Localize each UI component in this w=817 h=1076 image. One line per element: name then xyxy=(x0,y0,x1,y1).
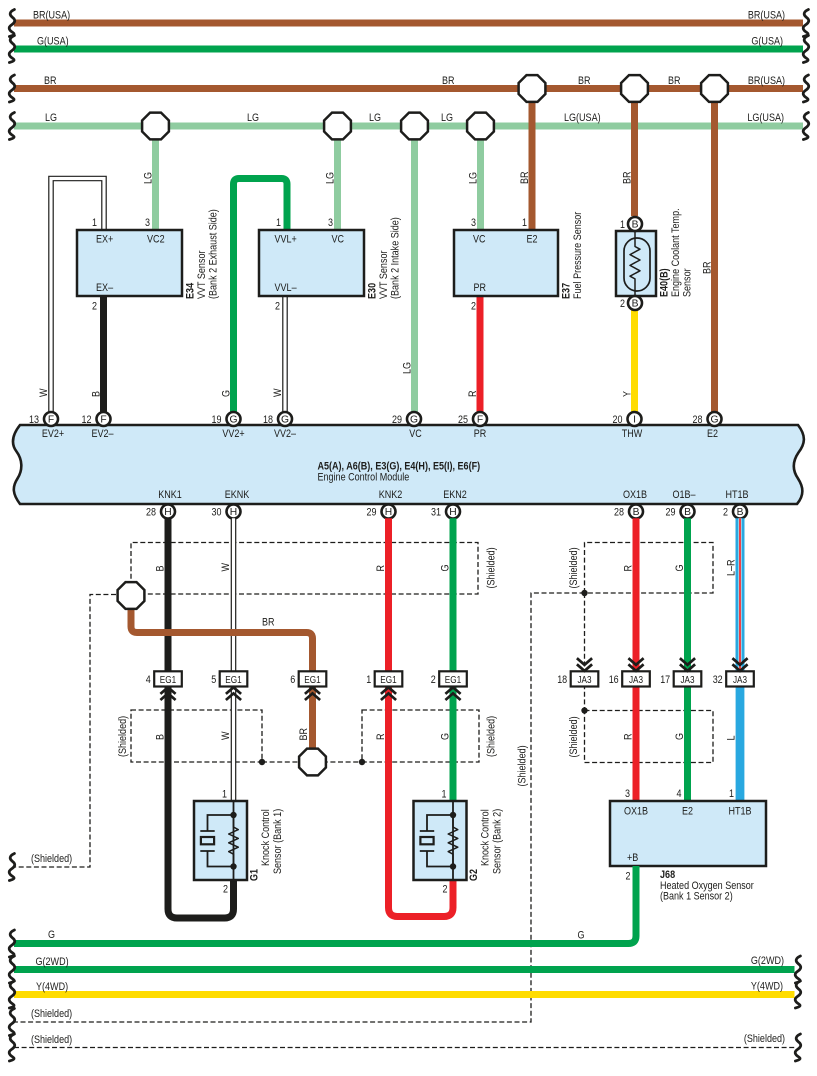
ECM pin 20 THW xyxy=(613,412,643,440)
svg-text:(Shielded): (Shielded) xyxy=(31,1008,72,1020)
connector EG1 pin 6 xyxy=(290,671,326,700)
sensor G2 Knock Control Sensor (Bank 2) xyxy=(414,789,504,896)
svg-text:1: 1 xyxy=(222,789,227,801)
svg-text:4: 4 xyxy=(146,674,151,686)
svg-text:BR: BR xyxy=(44,75,57,87)
svg-text:(Shielded): (Shielded) xyxy=(486,547,498,588)
svg-text:28: 28 xyxy=(146,506,156,518)
svg-text:VC2: VC2 xyxy=(147,234,165,246)
svg-text:BR: BR xyxy=(442,75,455,87)
svg-text:VVL–: VVL– xyxy=(275,282,298,294)
svg-text:H: H xyxy=(385,507,392,518)
svg-text:JA3: JA3 xyxy=(680,675,694,686)
wire BR shield drain from EG1 pin 6 to splice octagon xyxy=(298,686,313,751)
svg-text:EG1: EG1 xyxy=(445,675,462,686)
wire Y(4WD) bus xyxy=(9,981,801,1009)
svg-text:BR: BR xyxy=(578,75,591,87)
ECM pin 2 HT1B xyxy=(723,489,749,519)
shield tail dashed to left edge with (Shielded) label xyxy=(9,595,116,881)
wire BR shield drain from splice to EG1 pin 6 xyxy=(131,607,313,673)
shield dashed box KNK1/EKNK/KNK2/EKN2 upper xyxy=(131,543,498,595)
svg-text:BR(USA): BR(USA) xyxy=(748,75,785,87)
svg-text:Engine Coolant Temp.: Engine Coolant Temp. xyxy=(670,208,682,297)
svg-text:W: W xyxy=(38,388,50,397)
svg-text:L: L xyxy=(726,736,738,741)
svg-text:2: 2 xyxy=(92,301,97,313)
svg-text:2: 2 xyxy=(471,301,476,313)
wire W from E34 EX+ to ECM pin 13 xyxy=(38,179,104,413)
svg-text:R: R xyxy=(375,565,387,572)
svg-text:Sensor: Sensor xyxy=(682,268,694,297)
ECM pin 29 O1B– xyxy=(666,489,697,519)
svg-text:(Shielded): (Shielded) xyxy=(517,745,529,786)
svg-text:G2: G2 xyxy=(468,869,480,881)
svg-text:G: G xyxy=(674,565,686,572)
ECM pin 18 VV2– xyxy=(263,412,297,440)
wire L from JA3 32 to J68 pin 1 xyxy=(726,686,741,802)
svg-text:R: R xyxy=(467,390,479,397)
splice octagon LG-E30 xyxy=(324,113,351,140)
splice octagon shield lower xyxy=(299,749,326,776)
svg-text:E2: E2 xyxy=(707,428,718,440)
wire R KNK2 from ECM pin 29 to G2 pin 2 xyxy=(375,518,453,916)
svg-text:28: 28 xyxy=(614,506,624,518)
svg-text:JA3: JA3 xyxy=(577,675,591,686)
svg-text:LG: LG xyxy=(247,112,259,124)
svg-text:(Shielded): (Shielded) xyxy=(31,853,72,865)
wire G EKN2 from ECM pin 31 to G2 pin 1 xyxy=(440,518,454,801)
svg-text:EKN2: EKN2 xyxy=(443,489,467,501)
svg-text:29: 29 xyxy=(392,414,402,426)
svg-text:EG1: EG1 xyxy=(380,675,397,686)
svg-text:2: 2 xyxy=(620,298,625,310)
svg-text:(Bank 2 Intake Side): (Bank 2 Intake Side) xyxy=(390,217,402,299)
svg-text:G: G xyxy=(440,733,452,740)
splice octagon BR-E40 xyxy=(621,75,648,102)
svg-text:W: W xyxy=(220,731,232,740)
splice octagon shield left xyxy=(118,582,145,609)
wire LG drop to E37 VC xyxy=(468,133,481,230)
svg-text:Knock Control: Knock Control xyxy=(260,809,272,866)
wire W from E30 VVL- to ECM pin 18 xyxy=(272,296,285,412)
svg-text:F: F xyxy=(48,415,54,426)
svg-text:2: 2 xyxy=(626,871,631,883)
svg-text:18: 18 xyxy=(557,674,567,686)
svg-text:R: R xyxy=(375,733,387,740)
svg-text:R: R xyxy=(623,565,635,572)
connector JA3 pin 18 xyxy=(557,658,598,686)
svg-text:19: 19 xyxy=(212,414,222,426)
svg-text:EX+: EX+ xyxy=(96,234,113,246)
svg-text:Engine Control Module: Engine Control Module xyxy=(318,472,410,484)
svg-text:1: 1 xyxy=(522,217,527,229)
svg-text:G: G xyxy=(221,390,233,397)
svg-text:B: B xyxy=(155,734,167,740)
svg-text:JA3: JA3 xyxy=(629,675,643,686)
svg-text:(Shielded): (Shielded) xyxy=(568,547,580,588)
svg-text:LG: LG xyxy=(45,112,57,124)
ECM pin 28 OX1B xyxy=(614,489,647,519)
ECM pin 30 EKNK xyxy=(212,489,250,519)
svg-text:20: 20 xyxy=(613,414,623,426)
svg-text:G: G xyxy=(674,733,686,740)
svg-text:BR: BR xyxy=(668,75,681,87)
svg-text:3: 3 xyxy=(471,217,476,229)
wire LG drop to E34 VC2 xyxy=(143,133,156,230)
wire BR drop to E40(B) pin 1 xyxy=(622,95,635,216)
ECM pin 19 VV2+ xyxy=(212,412,245,440)
svg-text:2: 2 xyxy=(275,301,280,313)
connector EG1 pin 5 xyxy=(211,671,247,700)
svg-text:1: 1 xyxy=(620,219,625,231)
svg-text:G: G xyxy=(229,415,237,426)
wire BR bus xyxy=(9,75,809,102)
svg-text:VV2+: VV2+ xyxy=(222,428,244,440)
svg-text:B: B xyxy=(632,220,639,231)
svg-text:EG1: EG1 xyxy=(225,675,242,686)
svg-text:(Shielded): (Shielded) xyxy=(117,716,129,757)
svg-text:LG: LG xyxy=(369,112,381,124)
svg-text:E2: E2 xyxy=(527,234,538,246)
sensor E40(B) Engine Coolant Temp. Sensor xyxy=(616,208,694,310)
wire Y from E40(B) pin 2 to ECM pin 20 THW xyxy=(622,310,635,412)
svg-text:EG1: EG1 xyxy=(160,675,177,686)
svg-text:1: 1 xyxy=(92,217,97,229)
sensor E34 VVT Sensor (Bank 2 Exhaust Side) xyxy=(77,209,220,312)
svg-text:B: B xyxy=(91,391,103,397)
svg-text:H: H xyxy=(449,507,456,518)
svg-text:HT1B: HT1B xyxy=(725,489,748,501)
ECM pin 25 PR xyxy=(458,412,487,440)
svg-text:(Shielded): (Shielded) xyxy=(568,716,580,757)
svg-text:THW: THW xyxy=(622,428,643,440)
svg-text:H: H xyxy=(230,507,237,518)
svg-text:G: G xyxy=(410,415,418,426)
splice octagon LG-E34 xyxy=(142,113,169,140)
svg-text:OX1B: OX1B xyxy=(623,489,647,501)
svg-text:E2: E2 xyxy=(682,806,693,818)
ECM pin 13 EV2+ xyxy=(29,412,64,440)
svg-text:EV2–: EV2– xyxy=(91,428,114,440)
svg-text:LG: LG xyxy=(143,172,155,184)
wire B KNK1 from ECM pin 28 to G1 pin 2 xyxy=(155,518,234,918)
wire LG bus xyxy=(9,112,809,140)
svg-text:O1B–: O1B– xyxy=(672,489,696,501)
svg-text:Y(4WD): Y(4WD) xyxy=(751,981,783,993)
svg-text:2: 2 xyxy=(723,506,728,518)
ECM pin 31 EKN2 xyxy=(431,489,467,519)
svg-text:LG(USA): LG(USA) xyxy=(747,112,784,124)
svg-text:Fuel Pressure Sensor: Fuel Pressure Sensor xyxy=(572,211,584,299)
splice octagon LG-E37 xyxy=(467,113,494,140)
svg-text:VVT Sensor: VVT Sensor xyxy=(378,250,390,299)
svg-text:VC: VC xyxy=(473,234,486,246)
svg-text:BR: BR xyxy=(298,728,310,741)
sensor G1 Knock Control Sensor (Bank 1) xyxy=(194,789,284,896)
svg-text:(Shielded): (Shielded) xyxy=(744,1033,785,1045)
svg-text:25: 25 xyxy=(458,414,468,426)
shield tail dashed to bottom left edge with (Shielded) label xyxy=(9,593,584,1036)
svg-text:1: 1 xyxy=(276,217,281,229)
svg-text:G(USA): G(USA) xyxy=(751,36,783,48)
svg-text:13: 13 xyxy=(29,414,39,426)
svg-text:EKNK: EKNK xyxy=(225,489,250,501)
wire BR drop to E37 E2 xyxy=(519,95,532,230)
svg-text:B: B xyxy=(632,299,639,310)
svg-text:F: F xyxy=(477,415,483,426)
ECM pin 29 KNK2 xyxy=(367,489,403,519)
svg-text:HT1B: HT1B xyxy=(728,806,751,818)
svg-text:18: 18 xyxy=(263,414,273,426)
wire BR(USA) bus top xyxy=(9,10,809,37)
svg-text:12: 12 xyxy=(82,414,92,426)
wire G bus from J68 +B to left edge xyxy=(9,866,636,957)
module ECM Engine Control Module band xyxy=(13,425,804,504)
svg-text:L–R: L–R xyxy=(726,559,738,576)
svg-text:G(USA): G(USA) xyxy=(37,36,69,48)
svg-text:VC: VC xyxy=(409,428,422,440)
svg-text:EX–: EX– xyxy=(96,282,114,294)
svg-text:BR: BR xyxy=(622,171,634,184)
svg-text:VVL+: VVL+ xyxy=(275,234,297,246)
splice octagon BR-E37 xyxy=(519,75,546,102)
svg-text:G: G xyxy=(281,415,289,426)
connector EG1 pin 1 xyxy=(366,671,402,700)
svg-text:EG1: EG1 xyxy=(304,675,321,686)
wire R OX1B from ECM pin 28 to J68 pin 3 xyxy=(623,518,637,801)
shield dashed box R/G lower-middle xyxy=(362,710,498,762)
svg-text:16: 16 xyxy=(609,674,619,686)
shield dashed box OX1B/O1B- upper xyxy=(568,543,713,594)
svg-text:2: 2 xyxy=(431,674,436,686)
svg-text:G(2WD): G(2WD) xyxy=(751,955,784,967)
connector JA3 pin 16 xyxy=(609,658,650,686)
svg-text:1: 1 xyxy=(729,788,734,800)
ECM pin 29 VC xyxy=(392,412,422,440)
svg-text:31: 31 xyxy=(431,506,441,518)
wire LG drop to E30 VC xyxy=(325,133,338,230)
svg-text:LG: LG xyxy=(468,172,480,184)
wire G(USA) bus xyxy=(9,36,809,63)
svg-text:29: 29 xyxy=(666,506,676,518)
svg-text:1: 1 xyxy=(442,789,447,801)
svg-text:29: 29 xyxy=(367,506,377,518)
svg-text:E30: E30 xyxy=(367,283,379,299)
svg-text:E40(B): E40(B) xyxy=(659,268,671,297)
svg-text:Y(4WD): Y(4WD) xyxy=(36,981,68,993)
svg-text:JA3: JA3 xyxy=(733,675,747,686)
svg-text:E34: E34 xyxy=(185,282,197,299)
connector EG1 pin 2 xyxy=(431,671,467,700)
shield dashed box B/W lower-left xyxy=(117,710,262,762)
svg-text:+B: +B xyxy=(627,852,638,864)
svg-text:3: 3 xyxy=(328,217,333,229)
connector JA3 pin 32 xyxy=(713,658,754,686)
svg-text:(Shielded): (Shielded) xyxy=(31,1034,72,1046)
connector JA3 pin 17 xyxy=(660,658,701,686)
svg-text:BR: BR xyxy=(262,617,275,629)
wire W EKNK from ECM pin 30 to G1 pin 1 xyxy=(220,518,234,801)
svg-text:17: 17 xyxy=(660,674,670,686)
svg-text:PR: PR xyxy=(474,428,487,440)
svg-text:F: F xyxy=(100,415,106,426)
svg-text:BR: BR xyxy=(702,261,714,274)
shield dashed box OX1B/O1B- lower xyxy=(568,711,713,763)
wire (Shielded) dashed bus bottom xyxy=(9,1033,801,1061)
svg-text:W: W xyxy=(220,563,232,572)
svg-text:VV2–: VV2– xyxy=(274,428,297,440)
svg-text:VC: VC xyxy=(332,234,345,246)
wire R from E37 PR to ECM pin 25 xyxy=(467,296,480,412)
svg-text:G(2WD): G(2WD) xyxy=(36,956,69,968)
svg-text:B: B xyxy=(684,507,691,518)
svg-text:B: B xyxy=(737,507,744,518)
splice octagon BR-ECM xyxy=(701,75,728,102)
svg-text:Sensor (Bank 2): Sensor (Bank 2) xyxy=(492,809,504,874)
svg-text:EV2+: EV2+ xyxy=(42,428,64,440)
svg-text:BR(USA): BR(USA) xyxy=(748,10,785,22)
svg-text:PR: PR xyxy=(474,282,487,294)
svg-text:(Bank 2 Exhaust Side): (Bank 2 Exhaust Side) xyxy=(208,209,220,299)
wire G O1B- from ECM pin 29 to J68 pin 4 xyxy=(674,518,688,801)
svg-text:28: 28 xyxy=(693,414,703,426)
wire L-R HT1B from ECM pin 2 to JA3 32 xyxy=(726,518,741,672)
ECM pin 28 E2 xyxy=(693,412,722,440)
svg-text:3: 3 xyxy=(625,788,630,800)
svg-text:B: B xyxy=(633,507,640,518)
svg-text:G1: G1 xyxy=(249,869,261,881)
svg-text:BR: BR xyxy=(519,171,531,184)
svg-text:Knock Control: Knock Control xyxy=(480,809,492,866)
shield dashed link through splice octagon xyxy=(262,761,362,763)
svg-text:BR(USA): BR(USA) xyxy=(33,10,70,22)
svg-text:(Bank 1 Sensor 2): (Bank 1 Sensor 2) xyxy=(660,891,733,903)
ECM pin 12 EV2– xyxy=(82,412,115,440)
svg-text:KNK2: KNK2 xyxy=(379,489,403,501)
svg-text:VVT Sensor: VVT Sensor xyxy=(196,250,208,299)
svg-text:LG: LG xyxy=(402,362,414,374)
svg-text:OX1B: OX1B xyxy=(624,806,648,818)
svg-text:2: 2 xyxy=(443,884,448,896)
ECM pin 28 KNK1 xyxy=(146,489,182,519)
svg-text:4: 4 xyxy=(677,788,682,800)
svg-text:R: R xyxy=(623,733,635,740)
sensor E30 VVT Sensor (Bank 2 Intake Side) xyxy=(259,217,402,313)
svg-text:W: W xyxy=(272,388,284,397)
svg-text:2: 2 xyxy=(223,884,228,896)
svg-text:32: 32 xyxy=(713,674,723,686)
svg-text:B: B xyxy=(155,566,167,572)
svg-text:G: G xyxy=(440,565,452,572)
svg-text:LG: LG xyxy=(325,172,337,184)
shield dashed vertical through JA3 18 xyxy=(584,593,586,711)
sensor E37 Fuel Pressure Sensor xyxy=(454,211,584,312)
wire B from E34 EX- to ECM pin 12 xyxy=(91,296,104,412)
svg-text:LG: LG xyxy=(441,112,453,124)
wire BR drop to ECM pin 28 E2 xyxy=(702,95,715,412)
svg-text:KNK1: KNK1 xyxy=(158,489,182,501)
svg-text:Y: Y xyxy=(622,390,634,397)
svg-text:3: 3 xyxy=(145,217,150,229)
wire G from E30 VVL+ to ECM pin 19 xyxy=(221,179,288,413)
svg-text:G: G xyxy=(710,415,718,426)
wire LG drop to ECM pin 29 VC xyxy=(402,133,415,412)
svg-text:30: 30 xyxy=(212,506,222,518)
svg-text:H: H xyxy=(164,507,171,518)
svg-text:G: G xyxy=(578,930,585,942)
svg-text:5: 5 xyxy=(211,674,216,686)
svg-text:(Shielded): (Shielded) xyxy=(486,716,498,757)
splice octagon LG-ECM xyxy=(401,113,428,140)
svg-text:E37: E37 xyxy=(561,283,573,299)
svg-text:I: I xyxy=(633,415,636,426)
wire G(2WD) bus xyxy=(9,955,801,983)
connector EG1 pin 4 xyxy=(146,671,182,700)
svg-text:1: 1 xyxy=(366,674,371,686)
svg-text:6: 6 xyxy=(290,674,295,686)
svg-text:Sensor (Bank 1): Sensor (Bank 1) xyxy=(272,809,284,874)
svg-text:G: G xyxy=(48,929,55,941)
svg-text:LG(USA): LG(USA) xyxy=(564,112,601,124)
sensor J68 Heated Oxygen Sensor (Bank 1 Sensor 2) xyxy=(610,788,766,903)
